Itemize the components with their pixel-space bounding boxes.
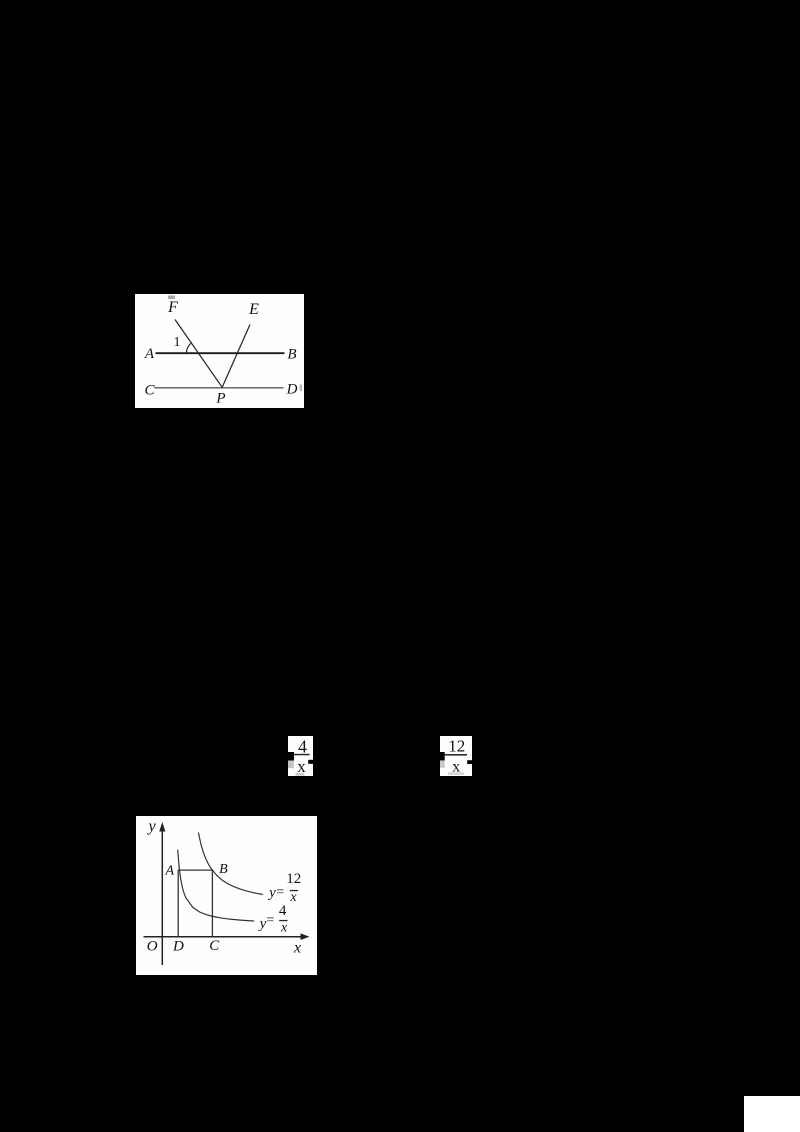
svg-text:x: x <box>280 921 288 936</box>
black blob right <box>467 760 472 764</box>
svg-text:1: 1 <box>174 335 181 350</box>
y axis <box>161 828 163 965</box>
black notch left <box>440 752 445 761</box>
svg-text:B: B <box>219 862 228 877</box>
svg-text:=: = <box>266 913 274 928</box>
gray smudge bottom <box>296 773 305 776</box>
curve y=12/x <box>198 833 262 895</box>
svg-text:x: x <box>293 940 301 957</box>
angle 1 arc <box>186 343 191 354</box>
svg-text:D: D <box>286 382 298 398</box>
gray smudge bottom-left <box>288 761 294 768</box>
transversal EP <box>222 325 250 388</box>
gray smudge left-bottom <box>440 761 445 768</box>
svg-text:4: 4 <box>279 903 287 919</box>
scan sliver near D <box>300 384 303 391</box>
fraction bar <box>445 754 467 756</box>
svg-text:C: C <box>209 938 220 954</box>
svg-text:y: y <box>267 885 276 901</box>
x axis <box>144 936 304 938</box>
svg-text:F: F <box>167 299 178 316</box>
line AB <box>156 352 285 354</box>
svg-text:=: = <box>276 885 284 900</box>
svg-text:12: 12 <box>286 871 301 887</box>
fraction bar <box>294 754 310 756</box>
svg-text:A: A <box>165 864 175 879</box>
figure 2: hyperbolas y=12/x and y=4/x with rectangle ABCD <box>136 816 317 975</box>
svg-text:12: 12 <box>448 737 465 756</box>
transversal FP <box>175 320 222 388</box>
svg-text:P: P <box>215 391 225 407</box>
black notch left <box>288 752 294 761</box>
curve y=4/x <box>178 850 254 921</box>
svg-text:C: C <box>144 383 155 399</box>
black dot right <box>308 760 313 764</box>
svg-text:x: x <box>289 890 297 905</box>
x axis arrowhead <box>301 933 310 940</box>
svg-text:y: y <box>258 916 267 932</box>
white corner block bottom-right <box>744 1096 800 1132</box>
fraction 12/x crop <box>440 736 472 776</box>
figure 1: parallel lines AB/CD with transversals FP, EP <box>135 294 304 408</box>
y axis arrowhead <box>159 822 165 832</box>
line CD <box>155 387 284 389</box>
svg-text:B: B <box>287 347 296 363</box>
svg-text:E: E <box>248 301 259 318</box>
scan smudge above F <box>168 296 175 300</box>
svg-text:O: O <box>147 939 158 955</box>
svg-text:D: D <box>172 939 184 955</box>
svg-text:A: A <box>144 346 155 362</box>
svg-text:y: y <box>146 818 156 835</box>
gray smudge bottom <box>448 772 464 774</box>
fraction 4/x crop <box>288 736 313 776</box>
rectangle ABCD <box>178 870 212 937</box>
svg-text:4: 4 <box>298 737 307 757</box>
